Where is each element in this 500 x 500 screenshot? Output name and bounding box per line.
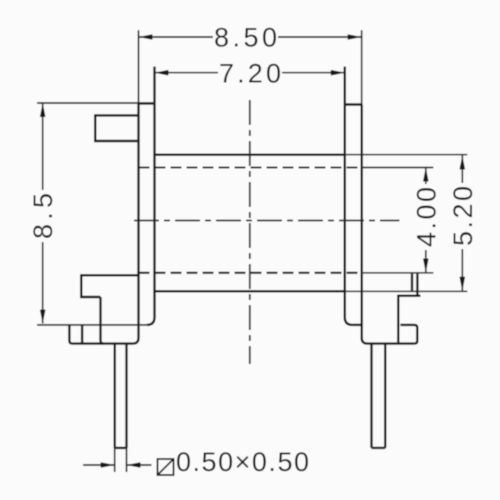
dim line 8.50	[139, 36, 362, 38]
right foot bottom	[367, 342, 414, 344]
arrow 0.50 left	[101, 462, 115, 468]
left flange outer edge	[133, 104, 139, 344]
arrow 7.20 left	[155, 70, 169, 76]
arrow 0.50 right	[127, 462, 141, 468]
arrow 5.20 up	[460, 156, 466, 170]
extension line 8.5 bottom (long foot line)	[37, 324, 147, 326]
left pin	[115, 344, 127, 448]
dim tail 0.50 left	[83, 464, 115, 466]
left foot bottom	[72, 342, 132, 344]
extension line 8.5 top	[37, 102, 155, 104]
left foot outer tab	[69, 325, 72, 344]
dim line 8.5	[42, 103, 44, 324]
arrow 8.5 up	[40, 103, 46, 117]
hidden line tube inner bottom	[139, 272, 363, 274]
winding tube top	[155, 153, 345, 155]
extension line 5.20 bottom	[345, 290, 468, 292]
left top tab	[95, 115, 138, 141]
extension line pin right	[126, 448, 128, 472]
winding tube bottom	[155, 290, 345, 292]
dim line 7.20	[155, 72, 345, 74]
arrow 8.50 right	[348, 34, 362, 40]
arrow 8.50 left	[139, 34, 153, 40]
right foot notch vertical	[398, 274, 420, 344]
right flange inner edge	[345, 67, 353, 325]
dim tail 0.50 right	[127, 464, 152, 466]
left foot step vertical	[101, 297, 104, 344]
extension line 4.00 bottom	[362, 272, 433, 274]
arrow 8.5 down	[40, 310, 46, 324]
arrow 4.00 down	[423, 259, 429, 273]
right pin	[372, 344, 386, 448]
left foot top edge	[81, 275, 138, 297]
svg-text:8.50: 8.50	[214, 23, 277, 53]
svg-text:4.00: 4.00	[411, 187, 441, 247]
svg-text:0.50×0.50: 0.50×0.50	[176, 447, 309, 477]
right foot slot line	[411, 274, 413, 292]
arrow 5.20 down	[460, 277, 466, 291]
square symbol 0.50x0.50	[158, 459, 174, 475]
extension line 4.00 top	[362, 167, 433, 169]
right foot tab	[400, 325, 417, 344]
left flange inner edge	[147, 67, 155, 325]
svg-text:5.20: 5.20	[448, 186, 478, 246]
extension line 5.20 top	[345, 154, 468, 156]
arrow 4.00 up	[423, 168, 429, 182]
dim line 4.00	[425, 168, 427, 273]
hidden line tube inner top	[139, 166, 363, 168]
svg-text:7.20: 7.20	[219, 58, 281, 88]
extension line 8.50 right	[361, 30, 363, 104]
dim line 5.20	[461, 156, 463, 291]
right flange top	[345, 103, 362, 105]
right long foot line	[352, 324, 361, 326]
extension line 8.50 left	[138, 30, 140, 103]
svg-text:8.5: 8.5	[28, 193, 58, 239]
extension line pin left	[114, 448, 116, 472]
left flange top	[139, 102, 155, 104]
arrow 7.20 right	[331, 70, 345, 76]
right flange outer edge	[362, 105, 368, 344]
vertical center line	[249, 100, 251, 364]
left foot inner tab edge	[81, 325, 83, 344]
horizontal center line	[134, 220, 400, 222]
